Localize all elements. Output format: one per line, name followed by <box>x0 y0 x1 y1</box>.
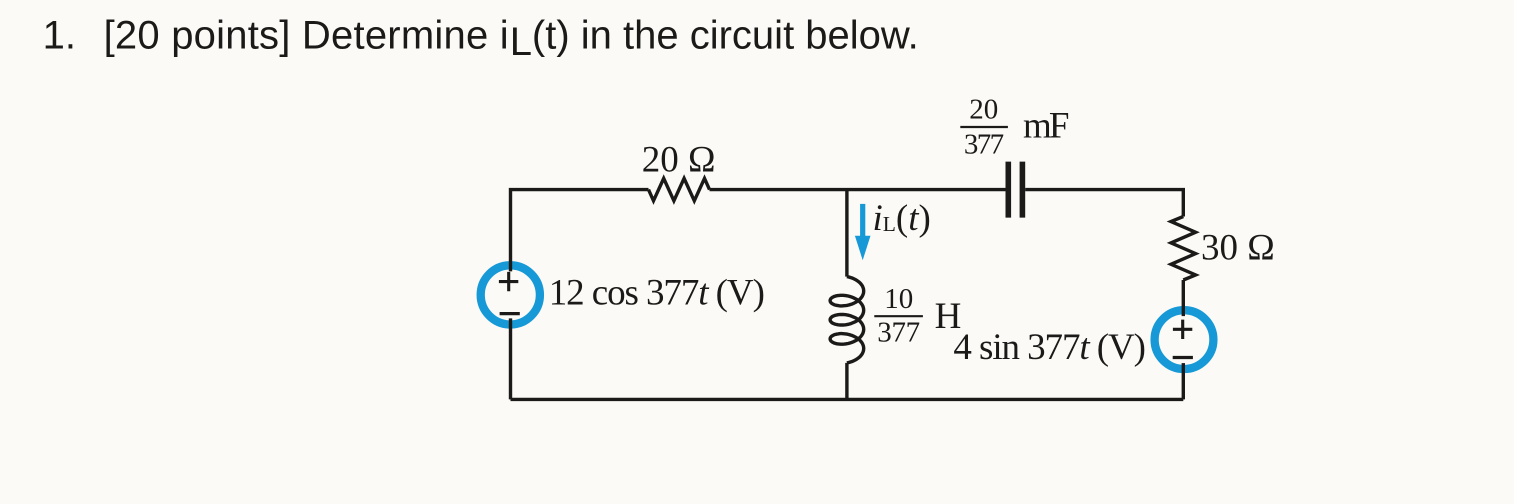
wire: right branch below source V2 <box>1182 363 1185 399</box>
wire: left branch below source V1 <box>509 318 512 399</box>
svg-text:(t) in the circuit below.: (t) in the circuit below. <box>532 14 919 58</box>
wire: bottom rail <box>511 398 1184 401</box>
capacitor C1 right plate <box>1020 162 1026 218</box>
svg-text:20: 20 <box>969 93 998 125</box>
wire: top middle segment to capacitor <box>710 188 1006 191</box>
svg-text:L: L <box>510 20 532 64</box>
svg-text:30 Ω: 30 Ω <box>1201 227 1275 268</box>
wire: right branch between R2 and source V2 <box>1182 280 1185 316</box>
current arrow iL(t) shaft <box>860 204 865 237</box>
svg-text:20 Ω: 20 Ω <box>642 139 716 180</box>
voltage source V2 (4sin377t) plus sign <box>1173 320 1192 339</box>
resistor R1 20ohm zigzag <box>649 178 710 200</box>
wire: left branch top corner <box>511 190 649 272</box>
voltage source V2 (4sin377t) minus sign <box>1173 356 1193 359</box>
wire: middle branch above inductor <box>845 190 848 277</box>
svg-text:[20 points] Determine i: [20 points] Determine i <box>104 14 509 58</box>
svg-text:377: 377 <box>877 317 920 349</box>
current arrow iL(t) head <box>855 236 871 261</box>
wire: top right segment and corner down to R2 <box>1025 190 1183 217</box>
voltage source V1 (12cos377t) minus sign <box>500 312 520 315</box>
voltage source V1 (12cos377t) circle <box>481 265 540 324</box>
svg-text:1.: 1. <box>43 14 76 58</box>
inductor fraction bar <box>874 315 923 317</box>
svg-text:377: 377 <box>964 128 1004 160</box>
voltage source V2 (4sin377t) circle <box>1155 310 1214 369</box>
inductor L1 coil <box>830 277 864 363</box>
capacitor C1 left plate <box>1005 162 1011 218</box>
wire: middle branch below inductor <box>845 363 848 400</box>
svg-text:4 sin 377t (V): 4 sin 377t (V) <box>953 327 1146 368</box>
svg-text:mF: mF <box>1023 105 1070 146</box>
svg-text:iL(t): iL(t) <box>873 198 931 239</box>
voltage source V1 (12cos377t) plus sign <box>499 272 518 291</box>
capacitor fraction bar <box>960 126 1008 128</box>
svg-text:12 cos 377t (V): 12 cos 377t (V) <box>549 272 765 313</box>
svg-text:10: 10 <box>884 283 913 315</box>
resistor R2 30ohm zigzag <box>1171 217 1196 281</box>
